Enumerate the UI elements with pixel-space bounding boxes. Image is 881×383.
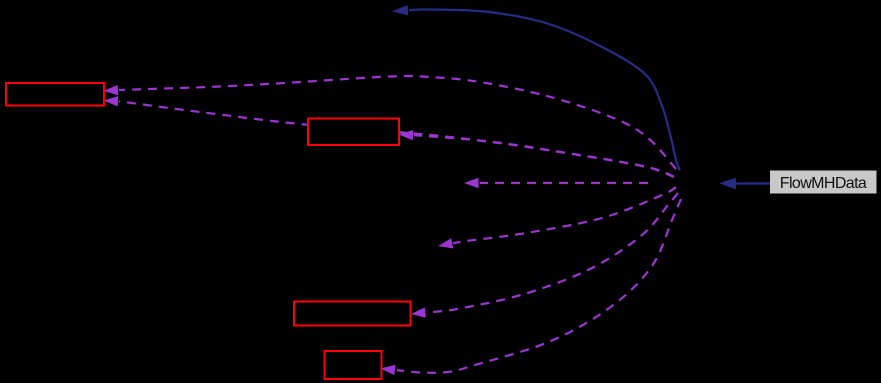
edge FlowMHData hub to node D <box>381 199 682 375</box>
node B (truncated, red) <box>308 119 399 146</box>
edge FlowMHData hub to hidden node F <box>438 187 676 249</box>
svg-text:FlowMHData: FlowMHData <box>780 175 867 192</box>
node D (truncated, red) bottom <box>325 351 382 379</box>
edge FlowMHData hub to node B <box>399 130 675 177</box>
edge FlowMHData hub to node A (lower usage) <box>104 96 675 177</box>
edge FlowMHData hub to node C <box>411 193 678 318</box>
node A (truncated, red) top-left <box>6 83 104 106</box>
edge FlowMHData hub to node A (upper usage) <box>104 76 677 169</box>
node C (truncated, red) bottom <box>294 302 411 326</box>
node FlowMHData (current class) <box>770 171 877 194</box>
edge FlowMHData hub to hidden node E <box>464 178 648 188</box>
edge FlowMHData to hub (inheritance) <box>719 178 770 189</box>
edge inheritance arc to hidden top node <box>392 5 680 170</box>
